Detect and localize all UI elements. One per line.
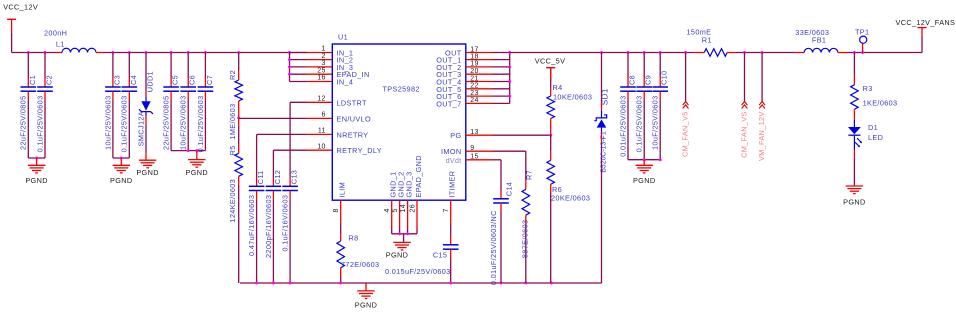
svg-text:PGND: PGND — [633, 176, 655, 185]
svg-text:R2: R2 — [228, 70, 237, 80]
svg-text:ITIMER: ITIMER — [448, 171, 457, 198]
svg-text:10KE/0603: 10KE/0603 — [553, 92, 592, 101]
svg-text:0.1uF/25V/0603: 0.1uF/25V/0603 — [120, 96, 129, 153]
svg-text:0.1uF/25V/0603: 0.1uF/25V/0603 — [196, 95, 205, 152]
svg-text:C7: C7 — [205, 75, 214, 85]
capacitor C12 — [264, 170, 282, 283]
svg-text:EN/UVLO: EN/UVLO — [337, 114, 371, 123]
resistor R7 887E/0603 — [466, 151, 534, 283]
ground PGND (U1 GND pins) — [386, 242, 411, 259]
capacitor C11 — [247, 170, 265, 283]
svg-text:8: 8 — [333, 208, 340, 212]
capacitor C3 — [103, 53, 121, 159]
svg-text:UDD1: UDD1 — [146, 71, 155, 92]
svg-text:10: 10 — [317, 143, 326, 150]
svg-text:0.1uF/16V/0603: 0.1uF/16V/0603 — [281, 195, 290, 252]
svg-text:C10: C10 — [660, 71, 669, 85]
power flag VCC_12V_FANS — [896, 18, 956, 36]
svg-text:PGND: PGND — [843, 198, 865, 207]
svg-text:PGND: PGND — [386, 250, 408, 259]
wire OUT rail — [510, 51, 695, 54]
svg-text:PGND: PGND — [136, 168, 158, 177]
svg-text:C4: C4 — [129, 75, 138, 85]
ground PGND (UDD1) — [136, 160, 158, 177]
ground PGND (C8 C9 C10) — [633, 165, 655, 185]
ground PGND (C5 C6 C7) — [186, 160, 208, 177]
svg-text:12: 12 — [317, 96, 326, 103]
wire pin 11 NRETRY to C11 — [257, 134, 333, 177]
svg-text:22uF/25V/0805: 22uF/25V/0805 — [19, 96, 28, 150]
svg-text:1KE/0603: 1KE/0603 — [863, 98, 898, 107]
svg-text:20KE/0603: 20KE/0603 — [551, 193, 590, 202]
ground PGND (bottom rail) — [355, 291, 377, 309]
capacitor C8 — [618, 53, 636, 160]
ground PGND (D1) — [843, 186, 865, 207]
svg-text:0.1uF/25V/0603: 0.1uF/25V/0603 — [635, 96, 644, 153]
svg-text:dVdt: dVdt — [446, 158, 462, 165]
svg-text:2200pF/16V/0603: 2200pF/16V/0603 — [264, 195, 273, 258]
svg-text:C15: C15 — [433, 250, 447, 259]
svg-text:PGND: PGND — [25, 176, 47, 185]
wire pin 12 LDSTRT to C13 — [290, 102, 332, 177]
svg-text:PG: PG — [450, 131, 461, 140]
svg-text:124KE/0603: 124KE/0603 — [228, 179, 237, 223]
capacitor C7 — [196, 53, 214, 153]
svg-text:4: 4 — [384, 208, 391, 212]
svg-text:772E/0603: 772E/0603 — [341, 260, 379, 269]
svg-text:3: 3 — [322, 60, 326, 67]
svg-text:2: 2 — [322, 53, 326, 60]
svg-text:TP1: TP1 — [855, 27, 869, 36]
svg-text:RETRY_DLY: RETRY_DLY — [337, 146, 382, 155]
capacitor C9 — [635, 53, 653, 160]
wire PGND stub — [365, 283, 367, 291]
svg-text:25: 25 — [317, 67, 326, 74]
net flag CM_FAN_V5 — [681, 53, 690, 158]
wire output bus (pins 17-24) — [466, 51, 511, 103]
svg-text:10uF/25V/0603: 10uF/25V/0603 — [179, 96, 188, 150]
wire EN node to pin 6 — [239, 117, 333, 119]
svg-text:SMCJ12A: SMCJ12A — [136, 111, 145, 146]
node EN/UVLO — [237, 116, 240, 119]
test point TP1 — [855, 27, 869, 52]
diode SD1 B520C-13-F1 — [594, 53, 609, 284]
capacitor C6 — [179, 53, 197, 151]
svg-text:7: 7 — [443, 208, 450, 212]
svg-text:C2: C2 — [45, 75, 54, 85]
resistor R2 1ME/0603 — [228, 53, 243, 140]
svg-text:EPAD_GND: EPAD_GND — [414, 155, 423, 197]
svg-text:C6: C6 — [188, 75, 197, 85]
svg-text:5: 5 — [392, 208, 399, 212]
svg-text:10uF/25V/0603: 10uF/25V/0603 — [103, 96, 112, 150]
net flag CM_FAN_VS — [739, 53, 748, 158]
svg-text:ILIM: ILIM — [338, 182, 347, 198]
svg-text:LED: LED — [868, 133, 883, 142]
capacitor C15 0.015uF — [385, 200, 459, 283]
svg-text:0.015uF/25V/0603: 0.015uF/25V/0603 — [385, 267, 451, 276]
svg-text:200nH: 200nH — [44, 28, 67, 37]
capacitor C5 — [162, 53, 180, 151]
svg-text:IMON: IMON — [441, 147, 461, 156]
svg-text:R7: R7 — [525, 170, 534, 180]
inductor L1 — [44, 28, 104, 52]
op-amp U1 TPS25982 eFuse IC — [317, 33, 479, 213]
svg-text:PGND: PGND — [110, 176, 132, 185]
svg-text:C12: C12 — [273, 170, 282, 184]
capacitor C2 — [35, 53, 53, 159]
svg-text:R8: R8 — [349, 233, 359, 242]
svg-text:16: 16 — [317, 75, 326, 82]
svg-text:OUT_7: OUT_7 — [436, 99, 461, 108]
svg-text:GND_3: GND_3 — [405, 171, 414, 197]
svg-text:LDSTRT: LDSTRT — [337, 98, 368, 107]
resistor R8 772E/0603 — [337, 200, 380, 283]
svg-text:0.1uF/25V/0603: 0.1uF/25V/0603 — [35, 96, 44, 153]
svg-text:C9: C9 — [644, 75, 653, 85]
capacitor C13 — [281, 170, 299, 283]
svg-text:887E/0603: 887E/0603 — [521, 220, 530, 258]
resistor R6 20KE/0603 — [547, 135, 590, 283]
svg-text:0.01uF/25V/0603/NC: 0.01uF/25V/0603/NC — [489, 210, 498, 285]
svg-text:C8: C8 — [628, 75, 637, 85]
svg-text:1ME/0603: 1ME/0603 — [228, 103, 237, 139]
resistor R4 10KE/0603 — [547, 68, 592, 136]
capacitor C10 — [651, 53, 669, 160]
wire C1-C2 join — [28, 157, 45, 166]
wire VCC_12V rail to L1 — [12, 51, 55, 54]
ground PGND (C1 C2) — [25, 165, 47, 185]
svg-text:L1: L1 — [56, 40, 65, 49]
svg-text:6: 6 — [322, 112, 326, 119]
svg-text:C11: C11 — [256, 170, 265, 184]
svg-text:R4: R4 — [553, 83, 563, 92]
resistor R5 124KE/0603 — [228, 118, 243, 283]
svg-text:C14: C14 — [505, 182, 514, 196]
svg-text:R3: R3 — [863, 84, 873, 93]
wire input bus (pins 1-16) — [288, 53, 332, 82]
wire pin 10 RETRY_DLY to C12 — [273, 150, 332, 177]
wire R1 to FB1 — [736, 51, 796, 54]
wire C8-C10 join — [628, 158, 662, 165]
capacitor C1 — [19, 53, 37, 159]
wire FB1 to VCC_12V_FANS — [848, 36, 922, 54]
power flag VCC_5V — [535, 57, 566, 81]
svg-text:0.01uF/25V/0603: 0.01uF/25V/0603 — [618, 96, 627, 157]
svg-text:0.47uF/16V/0603: 0.47uF/16V/0603 — [247, 195, 256, 256]
capacitor C14 0.01uF NC — [466, 160, 514, 285]
TVS diode UDD1 SMCJ12A — [136, 53, 154, 161]
power flag VCC_12V — [3, 3, 38, 53]
wire C3-C4 join — [113, 157, 129, 166]
wire GND pins to PGND — [392, 200, 417, 242]
svg-text:11: 11 — [318, 128, 326, 135]
wire main rail L1 to U1 — [104, 51, 307, 54]
ferrite bead FB1 33E/0603 — [795, 28, 848, 53]
svg-text:VCC_5V: VCC_5V — [535, 57, 566, 66]
svg-text:U1: U1 — [338, 33, 348, 42]
svg-text:10uF/25V/0603: 10uF/25V/0603 — [651, 96, 660, 150]
wire bottom ground rail — [240, 282, 602, 285]
svg-text:VM_FAN_12V: VM_FAN_12V — [757, 111, 766, 161]
svg-text:SD1: SD1 — [600, 88, 609, 105]
svg-text:R5: R5 — [228, 145, 237, 155]
svg-text:B520C-13-F1: B520C-13-F1 — [600, 131, 607, 173]
svg-text:VCC_12V: VCC_12V — [3, 3, 38, 12]
svg-text:PGND: PGND — [355, 300, 377, 309]
svg-text:C5: C5 — [171, 75, 180, 85]
svg-text:PGND: PGND — [186, 168, 208, 177]
svg-text:R1: R1 — [702, 36, 712, 45]
svg-text:22uF/25V/0805: 22uF/25V/0805 — [162, 96, 171, 150]
svg-text:D1: D1 — [868, 123, 878, 132]
svg-text:VCC_12V_FANS: VCC_12V_FANS — [896, 18, 956, 27]
wire PG net — [466, 134, 552, 137]
svg-text:14: 14 — [400, 204, 407, 213]
svg-text:26: 26 — [410, 204, 417, 213]
ground PGND (C3 C4) — [110, 165, 132, 185]
svg-text:CM_FAN_V5: CM_FAN_V5 — [681, 111, 690, 157]
svg-text:TPS25982: TPS25982 — [383, 85, 420, 94]
svg-text:NRETRY: NRETRY — [337, 130, 369, 139]
svg-text:C13: C13 — [290, 170, 299, 184]
svg-text:C3: C3 — [112, 75, 121, 85]
resistor R1 150mE — [687, 27, 736, 56]
LED D1 — [848, 120, 883, 186]
svg-text:FB1: FB1 — [812, 36, 826, 45]
svg-text:CM_FAN_VS: CM_FAN_VS — [739, 111, 748, 158]
svg-text:IN_4: IN_4 — [337, 78, 354, 87]
net flag VM_FAN_12V — [757, 53, 766, 162]
svg-text:C1: C1 — [28, 75, 37, 85]
svg-text:1: 1 — [322, 46, 326, 53]
capacitor C4 — [120, 53, 138, 159]
resistor R3 1KE/0603 — [851, 53, 898, 121]
wire C5-C6-C7 join — [171, 149, 205, 159]
